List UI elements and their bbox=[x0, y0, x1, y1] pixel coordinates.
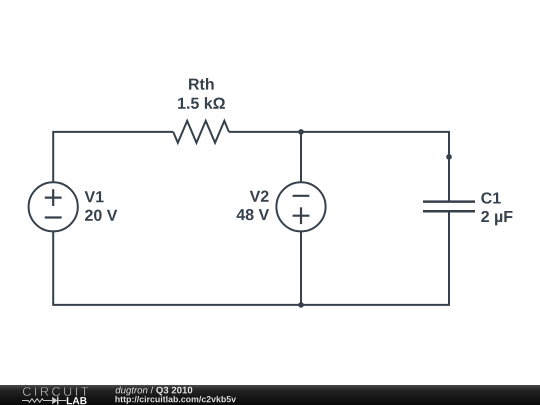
footer url line bbox=[115, 396, 236, 404]
footer author line bbox=[116, 386, 193, 395]
node junction dot on right wire bbox=[446, 154, 452, 160]
wire middle vertical top (node to V2) bbox=[300, 132, 302, 183]
V1 minus sign bbox=[45, 216, 62, 218]
CircuitLab logo word CIRCUIT bbox=[23, 387, 88, 396]
wire V2 bottom to bottom rail bbox=[300, 231, 302, 305]
voltage source V1 circle bbox=[29, 182, 78, 231]
node junction dot on bottom wire at V2 branch bbox=[298, 302, 304, 308]
label V2 value bbox=[250, 191, 269, 202]
V2 minus sign bbox=[293, 195, 310, 197]
label V1 value bbox=[85, 191, 104, 202]
footer bar bbox=[0, 385, 540, 405]
logo resistor zigzag bbox=[22, 399, 52, 403]
wire top-left segment with corner down to V1 bbox=[53, 132, 173, 183]
capacitor C1 plates bbox=[423, 202, 475, 212]
V2 plus sign bbox=[293, 207, 310, 224]
label C1 value bbox=[481, 192, 500, 203]
logo diode bar bbox=[57, 397, 59, 405]
label Rth value bbox=[85, 78, 513, 225]
logo wire after diode bbox=[58, 400, 66, 402]
wire bottom loop: V1 bottom, bottom rail, up to C1 bottom plate bbox=[53, 211, 449, 305]
resistor R1 (Rth) zigzag bbox=[173, 121, 229, 143]
V1 plus sign bbox=[45, 189, 62, 206]
node junction dot on top wire at V2 branch bbox=[298, 129, 304, 135]
logo diode triangle bbox=[52, 397, 57, 405]
voltage source V2 circle bbox=[276, 182, 325, 231]
logo word LAB bbox=[67, 397, 87, 404]
wire top-right segment with corner down to C1 top plate bbox=[229, 132, 449, 202]
